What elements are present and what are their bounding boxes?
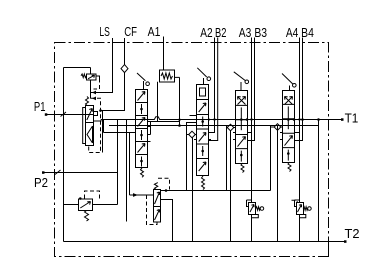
svg-text:B2: B2 — [215, 26, 226, 40]
svg-text:LS: LS — [99, 25, 110, 39]
svg-text:CF: CF — [124, 25, 137, 39]
svg-text:A2: A2 — [200, 26, 212, 40]
svg-text:B3: B3 — [254, 26, 267, 40]
svg-text:A4: A4 — [286, 26, 299, 40]
svg-text:T1: T1 — [345, 111, 359, 125]
svg-text:P2: P2 — [34, 176, 48, 190]
svg-text:P1: P1 — [34, 100, 46, 114]
svg-text:T2: T2 — [345, 227, 360, 241]
svg-text:A3: A3 — [239, 26, 252, 40]
svg-text:A1: A1 — [148, 25, 161, 39]
svg-text:B4: B4 — [301, 26, 314, 40]
